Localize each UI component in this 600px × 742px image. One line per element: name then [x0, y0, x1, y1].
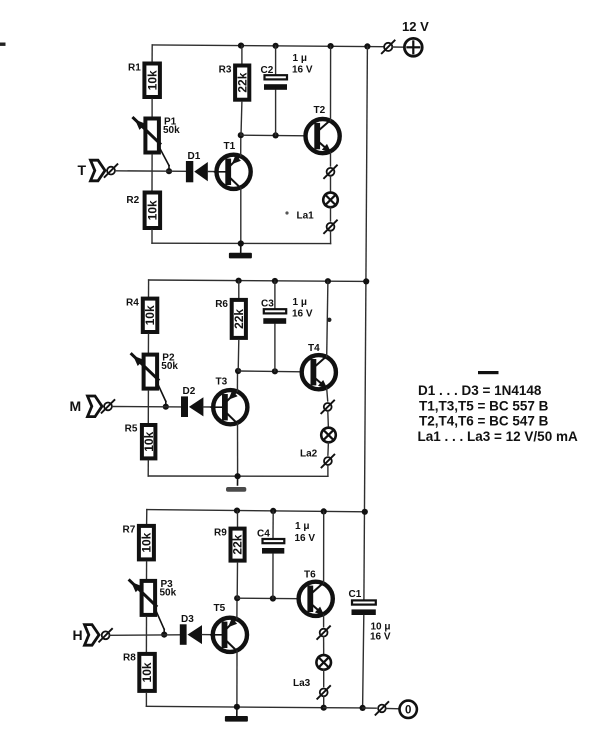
node stage1 emitter junction — [238, 132, 244, 138]
svg-text:D3: D3 — [181, 614, 194, 625]
resistor R7 — [123, 525, 154, 560]
svg-text:16 V: 16 V — [295, 533, 316, 544]
node stage1 ground junction — [238, 240, 244, 246]
wire to +12V terminal — [393, 46, 405, 48]
wire R8 bottom to ground rail — [146, 693, 323, 708]
wire T input to D1 — [115, 170, 186, 173]
potentiometer P2 — [132, 353, 179, 407]
ground stage2 (faded) — [226, 476, 246, 492]
wire R3 bottom to node — [240, 102, 243, 136]
scan speck — [327, 318, 331, 322]
svg-text:D1 . . . D3 = 1N4148: D1 . . . D3 = 1N4148 — [418, 383, 542, 398]
node stage3 chain junction — [321, 705, 327, 711]
input terminal H — [73, 625, 113, 646]
wire connector to ground rail — [330, 231, 332, 244]
resistor R3 — [219, 65, 250, 100]
wire P2 to R5 — [147, 391, 149, 423]
wire lamp La2 to connector — [327, 442, 330, 455]
input terminal T — [78, 160, 118, 181]
wire lamp La1 to connector — [330, 207, 332, 221]
wire 0V bottom rail — [324, 707, 363, 709]
connector lamp La3 upper — [317, 626, 330, 639]
page edge mark — [0, 43, 6, 46]
wire C2 bottom stub — [275, 90, 277, 135]
node P2 wiper junction — [163, 404, 169, 410]
svg-text:C4: C4 — [257, 529, 270, 540]
ground stage1 — [229, 244, 252, 259]
wire T4 collector stub — [327, 281, 328, 356]
node T2 collector rail junction — [328, 43, 334, 49]
svg-text:C2: C2 — [261, 65, 274, 76]
svg-text:R5: R5 — [125, 424, 138, 435]
node stage3 emitter junction — [234, 595, 240, 601]
transistor T3 — [211, 377, 247, 425]
svg-text:22k: 22k — [232, 309, 246, 329]
wire to 0V terminal — [386, 708, 400, 710]
svg-text:R2: R2 — [126, 195, 139, 206]
transistor T2 — [306, 105, 340, 153]
wire +12V right rail — [364, 46, 368, 599]
legend line 4 — [418, 429, 578, 444]
svg-text:R7: R7 — [123, 525, 136, 536]
svg-text:10k: 10k — [145, 70, 159, 90]
svg-text:1 μ: 1 μ — [295, 521, 309, 532]
terminal 0V — [400, 701, 417, 718]
svg-text:10k: 10k — [140, 532, 154, 552]
wire P3 to R8 — [145, 617, 147, 652]
svg-text:T5: T5 — [214, 603, 226, 614]
svg-text:10k: 10k — [143, 305, 157, 325]
wire C2 top stub — [275, 46, 277, 75]
wire R1 to P1 — [151, 99, 153, 117]
svg-text:C1: C1 — [349, 589, 362, 600]
svg-text:T2: T2 — [314, 105, 326, 116]
node stage3 rail tap — [362, 509, 368, 515]
wire R6 bottom to node — [237, 340, 240, 371]
node stage3 rail T6 — [321, 508, 327, 514]
wire H input to D3 — [110, 634, 180, 637]
wire to 0V connector — [363, 707, 377, 709]
wire C4 top stub — [272, 511, 274, 539]
svg-text:T1,T3,T5 = BC 557 B: T1,T3,T5 = BC 557 B — [419, 398, 549, 413]
svg-text:0: 0 — [405, 705, 411, 717]
svg-text:50k: 50k — [161, 361, 178, 372]
node right rail junction — [364, 43, 370, 49]
potentiometer P3 — [130, 579, 177, 635]
wire C4 bottom stub — [272, 554, 274, 599]
ground stage3 — [225, 707, 248, 722]
svg-text:T6: T6 — [304, 570, 316, 581]
legend line 1 — [418, 383, 542, 398]
svg-text:10k: 10k — [140, 662, 154, 682]
wire T3 emitter to node — [236, 371, 238, 391]
svg-text:La2: La2 — [300, 449, 318, 460]
wire T6 emitter to connector — [323, 615, 325, 627]
svg-text:M: M — [70, 398, 82, 414]
capacitor C1 — [349, 589, 391, 643]
node stage2 ground junction — [235, 473, 241, 479]
capacitor C4 — [257, 521, 315, 554]
wire R3 top stub — [241, 46, 243, 64]
resistor R1 — [128, 62, 160, 97]
transistor T6 — [299, 570, 333, 616]
legend divider dash — [478, 371, 499, 374]
resistor R8 — [123, 653, 155, 691]
wire R1 top stub — [151, 45, 153, 62]
lamp La3 — [293, 655, 331, 689]
input terminal M — [70, 396, 115, 417]
transistor T1 — [215, 141, 251, 189]
resistor R4 — [126, 297, 157, 332]
connector 0V plug — [376, 702, 389, 715]
wire connector to lamp La3 — [323, 637, 325, 655]
wire stage3 node line to T6 base — [237, 597, 299, 600]
wire R9 bottom to node — [236, 563, 238, 599]
wire T3 collector to ground rail — [237, 423, 239, 476]
capacitor C2 — [261, 53, 313, 90]
node C2 rail junction — [273, 43, 279, 49]
wire C3 bottom stub — [274, 324, 276, 371]
svg-text:50k: 50k — [163, 125, 180, 136]
node P1 wiper junction — [166, 168, 172, 174]
wire D1 to T1 base — [208, 171, 216, 173]
svg-text:16 V: 16 V — [370, 632, 391, 643]
wire R5 bottom to ground rail — [148, 460, 328, 476]
svg-text:T4: T4 — [308, 343, 320, 354]
svg-text:10k: 10k — [146, 200, 160, 220]
node stage3 rail R9 — [234, 508, 240, 514]
wire T2 collector stub — [330, 46, 332, 120]
svg-text:22k: 22k — [231, 534, 245, 554]
terminal +12V — [402, 19, 429, 56]
svg-text:10k: 10k — [142, 431, 156, 451]
wire connector to ground rail — [323, 697, 325, 708]
wire stage1 node line to T2 base — [241, 134, 306, 137]
node stage3 rail C4 — [270, 508, 276, 514]
svg-text:R6: R6 — [215, 299, 228, 310]
wire D2 to T3 base — [203, 406, 212, 408]
wire T4 emitter to connector — [327, 388, 328, 401]
svg-text:T: T — [78, 162, 87, 178]
connector lamp La2 lower — [322, 455, 335, 468]
wire C3 top stub — [274, 281, 276, 309]
svg-text:D1: D1 — [188, 151, 201, 162]
svg-text:R8: R8 — [123, 653, 136, 664]
wire D3 to T5 base — [202, 634, 212, 636]
wire R4 to P2 — [147, 334, 149, 353]
svg-text:R4: R4 — [126, 297, 139, 308]
node R3 rail junction — [238, 43, 244, 49]
resistor R9 — [214, 527, 245, 560]
wire C1 bottom to 0 rail — [363, 616, 364, 708]
svg-text:T2,T4,T6 = BC 547 B: T2,T4,T6 = BC 547 B — [419, 414, 549, 429]
wire connector to lamp La1 — [330, 176, 332, 193]
svg-text:La3: La3 — [293, 678, 311, 689]
svg-text:T1: T1 — [224, 141, 236, 152]
lamp La2 — [300, 428, 336, 460]
wire +12V top rail — [152, 45, 384, 47]
wire T1 emitter to node — [240, 135, 242, 156]
node C4 bottom junction — [270, 595, 276, 601]
node C3 bottom junction — [272, 368, 278, 374]
resistor R6 — [215, 299, 246, 338]
wire T5 emitter to node — [236, 598, 238, 619]
node stage2 rail C3 — [272, 278, 278, 284]
svg-text:16 V: 16 V — [292, 309, 313, 320]
node stage3 ground junction — [234, 704, 240, 710]
wire P1 to R2 — [151, 155, 153, 191]
wire T1 collector to ground rail — [240, 188, 242, 244]
node 0V rail junction — [360, 705, 366, 711]
wire R2 bottom to ground rail — [152, 230, 331, 244]
diode D1 — [186, 151, 208, 183]
transistor T4 — [302, 343, 336, 389]
wire stage2 +12V rail — [149, 280, 367, 281]
connector lamp La1 upper — [324, 165, 337, 178]
svg-text:1 μ: 1 μ — [293, 297, 307, 308]
connector lamp La1 lower — [324, 220, 337, 233]
svg-text:R9: R9 — [214, 527, 227, 538]
svg-text:La1: La1 — [297, 211, 315, 222]
scan speck stage1 — [285, 211, 288, 214]
svg-text:C3: C3 — [261, 299, 274, 310]
wire T5 collector to ground rail — [236, 651, 238, 707]
svg-text:50k: 50k — [160, 587, 177, 598]
diode D3 — [180, 614, 202, 645]
legend line 3 — [419, 414, 549, 429]
wire R4 top stub — [148, 280, 150, 297]
wire M input to D2 — [112, 406, 181, 408]
wire T6 collector stub — [323, 511, 325, 583]
transistor T5 — [211, 603, 247, 652]
wire R9 top stub — [237, 511, 239, 527]
resistor R5 — [125, 424, 156, 459]
wire lamp La3 to connector — [323, 670, 325, 687]
svg-text:T3: T3 — [216, 377, 228, 388]
wire T2 emitter to connector — [330, 152, 332, 166]
svg-text:R3: R3 — [219, 65, 232, 76]
svg-text:La1 . . . La3 = 12 V/50 mA: La1 . . . La3 = 12 V/50 mA — [418, 429, 578, 444]
wire R7 top stub — [146, 510, 148, 524]
node stage2 emitter junction — [235, 368, 241, 374]
capacitor C3 — [261, 297, 313, 324]
wire connector to lamp La2 — [327, 411, 330, 428]
svg-text:R1: R1 — [128, 62, 141, 73]
node stage2 rail T4 — [325, 278, 331, 284]
svg-text:1 μ: 1 μ — [293, 53, 307, 64]
svg-text:D2: D2 — [183, 386, 196, 397]
node stage2 rail R6 — [236, 278, 242, 284]
resistor R2 — [126, 193, 160, 229]
wire R7 to P3 — [146, 561, 148, 579]
wire stage2 node line to T4 base — [238, 370, 302, 373]
legend line 2 — [419, 398, 549, 413]
wire connector to ground rail — [327, 465, 329, 476]
wire stage3 +12V rail — [147, 510, 365, 512]
lamp La1 — [297, 193, 338, 222]
wire R6 top stub — [238, 281, 240, 298]
node stage2 rail tap — [363, 278, 369, 284]
node C2 bottom junction — [273, 132, 279, 138]
node P3 wiper junction — [161, 632, 167, 638]
connector 12V plug — [382, 41, 395, 54]
svg-text:H: H — [73, 627, 83, 643]
connector lamp La2 upper — [321, 401, 334, 414]
diode D2 — [181, 386, 203, 417]
svg-text:12 V: 12 V — [402, 19, 429, 34]
potentiometer P1 — [134, 117, 181, 171]
svg-text:16 V: 16 V — [292, 65, 313, 76]
connector lamp La3 lower — [317, 686, 330, 699]
svg-text:22k: 22k — [235, 72, 249, 92]
